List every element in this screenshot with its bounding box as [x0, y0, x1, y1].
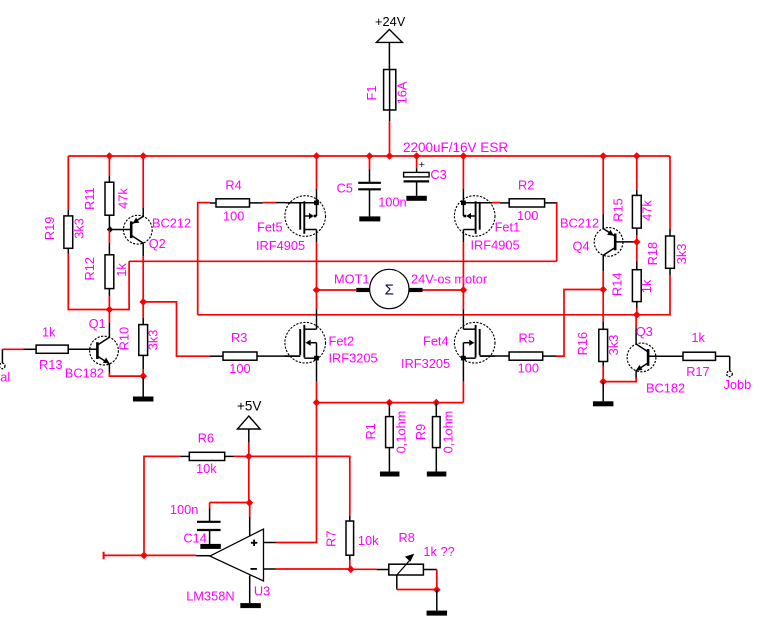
- svg-text:100: 100: [229, 361, 250, 376]
- label 16A: [394, 81, 409, 104]
- svg-text:3k3: 3k3: [606, 335, 621, 356]
- svg-text:3k3: 3k3: [72, 218, 87, 239]
- resistor R11: [105, 176, 114, 230]
- svg-text:R8: R8: [399, 530, 415, 545]
- label Q4: [573, 239, 590, 254]
- label C5: [337, 181, 353, 196]
- label R12: [82, 257, 97, 280]
- svg-text:Fet5: Fet5: [257, 219, 283, 234]
- wire R14 node to R18: [637, 275, 670, 315]
- resistor R2: [500, 199, 556, 207]
- label R1 value 0,1ohm: [393, 411, 408, 454]
- svg-text:R14: R14: [610, 273, 625, 296]
- wire R5 to Q4 collector: [556, 290, 603, 357]
- wire op-amp plus input: [276, 403, 317, 543]
- wire U3 vplus red: [248, 503, 251, 517]
- label R3 value 100: [229, 361, 250, 376]
- wire minus node to R8: [351, 568, 377, 570]
- wire motor to Fet4 drain: [462, 290, 464, 310]
- junction bus-Q2e: [139, 152, 147, 160]
- pin Bal: [0, 349, 5, 368]
- transistor Q2 BC212: [110, 208, 152, 256]
- wire Q4 collector: [602, 271, 604, 290]
- resistor R1: [386, 403, 394, 472]
- svg-text:R19: R19: [42, 217, 57, 240]
- label Q1 BC182: [65, 366, 104, 381]
- junction bus-C5: [366, 152, 374, 160]
- label R8: [399, 530, 415, 545]
- junction bus-Fet5: [313, 152, 321, 160]
- wire R8 right down: [436, 570, 438, 590]
- resistor R10: [139, 318, 148, 369]
- svg-text:IRF4905: IRF4905: [256, 238, 305, 253]
- mosfet Fet2 IRF3205: [285, 310, 326, 382]
- resistor R15: [632, 190, 641, 235]
- label R5: [519, 330, 535, 345]
- svg-text:R7: R7: [323, 531, 338, 547]
- svg-text:LM358N: LM358N: [186, 589, 234, 604]
- junction sense-R1: [386, 399, 394, 407]
- junction bus-R11: [106, 152, 114, 160]
- wire R8 wiper: [397, 589, 437, 591]
- wire R12 to node: [108, 296, 110, 310]
- svg-text:R3: R3: [231, 330, 247, 345]
- label Jobb: [724, 377, 752, 392]
- label Fet2: [329, 333, 355, 348]
- svg-text:R17: R17: [686, 364, 709, 379]
- wire Q2c to R3: [143, 302, 210, 356]
- wire Q4c to R16: [602, 290, 604, 322]
- wire +24V bus: [68, 155, 670, 157]
- svg-text:10k: 10k: [196, 461, 217, 476]
- junction Q4c: [599, 286, 607, 294]
- junction bus-C3: [413, 152, 421, 160]
- label R13 value 1k: [42, 325, 56, 340]
- label R11: [82, 187, 97, 210]
- label LM358N: [186, 589, 234, 604]
- label R14 value 1k: [639, 279, 654, 293]
- svg-text:R16: R16: [575, 332, 590, 355]
- wire R19 bottom: [68, 254, 109, 310]
- ground under R1: [380, 472, 400, 477]
- label R1: [363, 423, 378, 439]
- label U3: [254, 584, 270, 599]
- wire bus to Q4 emitter: [602, 156, 604, 215]
- wire Fet1 gate red: [492, 202, 500, 204]
- svg-text:BC212: BC212: [152, 216, 191, 231]
- label R2: [518, 177, 534, 192]
- svg-text:100n: 100n: [378, 194, 406, 209]
- svg-text:R15: R15: [610, 198, 625, 221]
- mosfet Fet4 IRF3205: [454, 310, 495, 382]
- svg-text:Q2: Q2: [149, 236, 166, 251]
- label R11 value 47k: [115, 188, 130, 209]
- resistor R13: [23, 345, 97, 353]
- svg-text:Jobb: Jobb: [724, 377, 752, 392]
- label Fet5 IRF4905: [256, 238, 305, 253]
- svg-text:2200uF/16V ESR: 2200uF/16V ESR: [403, 140, 508, 155]
- svg-text:R5: R5: [519, 330, 535, 345]
- ground under R10: [133, 376, 154, 401]
- junction output/R6: [140, 552, 148, 560]
- svg-text:100: 100: [518, 361, 539, 376]
- transistor Q1 BC182: [90, 323, 119, 373]
- svg-text:IRF3205: IRF3205: [329, 351, 378, 366]
- resistor R4: [210, 199, 263, 207]
- svg-text:BC182: BC182: [65, 366, 104, 381]
- label C5 value 100n: [378, 194, 406, 209]
- label R6: [198, 431, 214, 446]
- label Q4 BC212: [560, 216, 599, 231]
- label R18: [645, 242, 660, 265]
- wire node A to Q1 collector: [108, 310, 110, 324]
- svg-text:Q4: Q4: [573, 239, 590, 254]
- resistor R5: [480, 352, 557, 360]
- junction sense-Fet2: [313, 399, 321, 407]
- svg-text:1k ??: 1k ??: [423, 544, 454, 559]
- svg-text:1k: 1k: [42, 325, 56, 340]
- label R13: [39, 357, 62, 372]
- ground under U3: [240, 603, 261, 608]
- svg-text:+: +: [419, 159, 425, 171]
- svg-text:Fet2: Fet2: [329, 333, 355, 348]
- ground under R9: [427, 472, 447, 477]
- label R14: [610, 273, 625, 296]
- junction motor left: [313, 286, 321, 294]
- wire bus to R11: [108, 156, 110, 176]
- wire motor to Fet2 drain: [316, 290, 318, 310]
- svg-text:Σ: Σ: [385, 282, 394, 299]
- label R17 value 1k: [691, 330, 705, 345]
- wire motor left: [317, 289, 357, 291]
- wire R2 net: [555, 203, 557, 262]
- capacitor C3: [404, 156, 430, 196]
- junction +5V node: [245, 453, 253, 461]
- capacitor C14: [197, 509, 221, 544]
- label Q2: [149, 236, 166, 251]
- junction R16/Q3e/gnd: [599, 378, 607, 386]
- svg-text:R18: R18: [645, 242, 660, 265]
- resistor R14: [632, 262, 641, 309]
- label C14 value 100n: [170, 502, 198, 517]
- label R2 value 100: [517, 208, 538, 223]
- junction node A (R12/R19/Q1c): [106, 306, 114, 314]
- label R7 value 10k: [358, 533, 379, 548]
- label R16: [575, 332, 590, 355]
- ground under C14: [200, 544, 221, 549]
- svg-text:0,1ohm: 0,1ohm: [393, 411, 408, 454]
- svg-text:Q3: Q3: [636, 324, 653, 339]
- label R15: [610, 198, 625, 221]
- svg-text:Fet4: Fet4: [423, 333, 449, 348]
- wire Fet5 drain to motor: [316, 242, 318, 290]
- ground under R8: [427, 590, 448, 616]
- label R19: [42, 217, 57, 240]
- svg-text:+5V: +5V: [237, 399, 261, 414]
- wire sense bus: [317, 402, 464, 404]
- svg-text:R13: R13: [39, 357, 62, 372]
- wire R4 net vertical: [198, 203, 210, 315]
- resistor R18: [666, 229, 675, 275]
- label R8 value 1k ??: [423, 544, 454, 559]
- wire R14 bottom: [636, 308, 638, 315]
- wire R6 left net: [144, 456, 180, 555]
- label Q3: [636, 324, 653, 339]
- wire bus to Q2 emitter: [142, 156, 144, 208]
- wire R2 net horizontal: [129, 260, 557, 262]
- svg-text:100n: 100n: [170, 502, 198, 517]
- net end marker: [103, 552, 105, 560]
- label R10: [117, 327, 132, 350]
- mosfet Fet1 IRF4905: [454, 189, 495, 242]
- wire R10 bottom: [142, 369, 144, 376]
- ground under C5: [359, 216, 380, 221]
- wire Q2 collector: [142, 256, 144, 302]
- resistor R3: [210, 352, 301, 360]
- resistor R17: [648, 352, 730, 360]
- wire R4 to Fet5 gate: [263, 202, 285, 204]
- svg-text:IRF4905: IRF4905: [471, 238, 520, 253]
- svg-text:IRF3205: IRF3205: [401, 356, 450, 371]
- label C14: [183, 531, 206, 546]
- wire bus to Fet1 source: [462, 156, 464, 189]
- svg-text:al: al: [0, 370, 10, 385]
- svg-text:R2: R2: [518, 177, 534, 192]
- resistor R7: [346, 516, 354, 560]
- label Fet4 IRF3205: [401, 356, 450, 371]
- label R15 value 47k: [640, 200, 655, 221]
- svg-text:R9: R9: [413, 424, 428, 440]
- resistor R12: [105, 243, 114, 296]
- svg-text:BC182: BC182: [646, 381, 685, 396]
- label R9 value 0,1ohm: [440, 411, 455, 454]
- label MOT1: [334, 272, 370, 287]
- label R3: [231, 330, 247, 345]
- label R16 value 3k3: [606, 335, 621, 356]
- wire motor right: [423, 289, 464, 291]
- wire Fet1 drain to motor: [462, 242, 464, 290]
- label C3: [430, 167, 446, 182]
- wire R15-R14: [636, 235, 638, 262]
- label Q3 BC182: [646, 381, 685, 396]
- svg-text:MOT1: MOT1: [334, 272, 370, 287]
- label Fet5: [257, 219, 283, 234]
- wire Fet2 source: [316, 382, 318, 403]
- svg-text:R6: R6: [198, 431, 214, 446]
- label Fet1 IRF4905: [471, 238, 520, 253]
- svg-text:+24V: +24V: [375, 14, 406, 29]
- label R10 value 3k3: [146, 330, 161, 351]
- svg-text:F1: F1: [364, 86, 379, 101]
- junction Q4 base node: [633, 238, 641, 246]
- label R18 value 3k3: [674, 244, 689, 265]
- resistor R9: [433, 403, 441, 472]
- op-amp U3 LM358N: [196, 517, 276, 604]
- wire bus to R15: [636, 156, 638, 190]
- mosfet Fet5 IRF4905: [285, 189, 326, 242]
- wire op-amp minus input: [276, 568, 351, 570]
- wire pin to R13: [2, 348, 23, 350]
- label Fet4: [423, 333, 449, 348]
- svg-text:3k3: 3k3: [674, 244, 689, 265]
- label R6 value 10k: [196, 461, 217, 476]
- label R12 value 1k: [114, 263, 129, 277]
- svg-text:R1: R1: [363, 423, 378, 439]
- junction bus-F1: [386, 152, 394, 160]
- svg-text:1k: 1k: [114, 263, 129, 277]
- pin Jobb: [727, 356, 733, 376]
- junction motor right: [460, 286, 468, 294]
- svg-text:100: 100: [517, 208, 538, 223]
- label R19 value 3k3: [72, 218, 87, 239]
- svg-text:R11: R11: [82, 187, 97, 210]
- label R17: [686, 364, 709, 379]
- junction R10/Q1e/gnd: [139, 372, 147, 380]
- capacitor C5: [358, 156, 381, 216]
- label R4 value 100: [223, 208, 244, 223]
- wire Q1 emitter to gnd node: [109, 373, 143, 377]
- svg-text:1k: 1k: [639, 279, 654, 293]
- svg-text:47k: 47k: [640, 200, 655, 221]
- wire op-amp output: [104, 554, 197, 556]
- +5V supply symbol: [237, 399, 261, 457]
- svg-text:100: 100: [223, 208, 244, 223]
- label R9: [413, 424, 428, 440]
- svg-text:R4: R4: [225, 177, 241, 192]
- wire Fet4 source: [462, 382, 464, 403]
- junction bus-Q4e: [599, 152, 607, 160]
- wire R6 right to +5V node: [234, 455, 249, 457]
- svg-text:1k: 1k: [691, 330, 705, 345]
- wire bus to R18: [669, 156, 671, 229]
- ground under R16: [593, 382, 614, 407]
- svg-text:3k3: 3k3: [146, 330, 161, 351]
- resistor R19: [64, 210, 73, 254]
- label R4: [225, 177, 241, 192]
- svg-text:0,1ohm: 0,1ohm: [440, 411, 455, 454]
- svg-text:R12: R12: [82, 257, 97, 280]
- wire R16 bottom: [602, 366, 604, 382]
- junction R8/gnd: [433, 586, 441, 594]
- svg-text:10k: 10k: [358, 533, 379, 548]
- wire R7 bottom: [349, 560, 351, 569]
- wire R2 net to node A: [109, 261, 129, 309]
- label Fet1: [495, 220, 521, 235]
- label R7: [323, 531, 338, 547]
- junction bus-R15: [633, 152, 641, 160]
- junction sense-R9: [433, 399, 441, 407]
- wire +5V node to R7: [249, 456, 350, 516]
- ground under C3: [406, 196, 427, 201]
- label Q1: [89, 316, 106, 331]
- junction bus-Fet1: [460, 152, 468, 160]
- junction C14 node: [246, 499, 254, 507]
- svg-text:C14: C14: [183, 531, 206, 546]
- label R5 value 100: [518, 361, 539, 376]
- wire R4 net horizontal: [198, 314, 637, 316]
- wire fuse to bus: [389, 121, 391, 156]
- wire bus to Fet5 source: [316, 156, 318, 189]
- svg-text:C5: C5: [337, 181, 353, 196]
- svg-text:16A: 16A: [394, 81, 409, 104]
- junction minus/R7: [347, 566, 355, 574]
- label F1: [364, 86, 379, 101]
- transistor Q4 BC212: [594, 215, 637, 272]
- wire C14 node left: [210, 503, 250, 509]
- svg-text:47k: 47k: [115, 188, 130, 209]
- transistor Q3 BC182: [627, 328, 656, 378]
- fuse F1: [384, 70, 396, 122]
- label al: [0, 370, 10, 385]
- label Fet2 IRF3205: [329, 351, 378, 366]
- wire R11-R12: [108, 230, 110, 244]
- wire Q3 collector red: [635, 315, 637, 329]
- svg-text:R10: R10: [117, 327, 132, 350]
- svg-text:U3: U3: [254, 584, 270, 599]
- wire +5V node down: [248, 456, 250, 502]
- label 24V-os motor: [411, 272, 488, 287]
- svg-text:Q1: Q1: [89, 316, 106, 331]
- resistor R16: [599, 322, 608, 366]
- junction Q2c/R10: [139, 298, 147, 306]
- label 2200uF/16V ESR: [403, 140, 508, 155]
- +24V supply symbol: [375, 14, 406, 70]
- wire R10 top: [142, 302, 144, 318]
- wire bus to R19: [67, 156, 69, 210]
- label Q2 BC212: [152, 216, 191, 231]
- resistor R6: [180, 452, 234, 460]
- wire Q3 emitter: [603, 378, 636, 382]
- svg-text:24V-os motor: 24V-os motor: [411, 272, 488, 287]
- svg-text:C3: C3: [430, 167, 446, 182]
- junction R14/R4net: [633, 311, 641, 319]
- potentiometer R8: [377, 554, 437, 590]
- node R11-R12 junction: [107, 226, 113, 232]
- svg-text:BC212: BC212: [560, 216, 599, 231]
- motor MOT1: [356, 269, 422, 308]
